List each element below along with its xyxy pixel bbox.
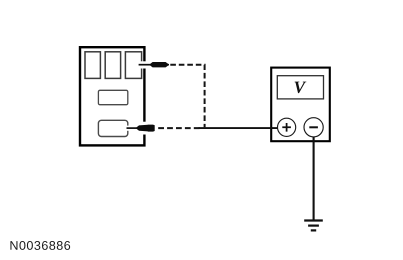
voltmeter body: [271, 68, 330, 142]
dashed jumper: bottom run to probe: [156, 127, 200, 129]
wire: - terminal to ground: [313, 137, 315, 220]
probe arrow bottom (into bottom cavity): [126, 122, 156, 135]
connector cavity middle: [98, 90, 127, 104]
connector cavity pin 1: [85, 52, 100, 79]
wire: junction to voltmeter + terminal: [199, 127, 278, 129]
voltmeter display window: [277, 76, 323, 99]
ground symbol: [304, 221, 323, 231]
connector cavity pin 3: [125, 52, 141, 79]
figure label N0036886: [10, 241, 70, 250]
connector cavity pin 2: [105, 52, 120, 79]
voltmeter - terminal: [304, 118, 323, 137]
dashed jumper: top run and vertical drop: [170, 65, 204, 128]
voltmeter + terminal: [278, 118, 296, 136]
voltmeter V label: [295, 82, 307, 94]
probe arrow top (into pin 3): [137, 61, 169, 68]
connector cavity bottom: [98, 120, 127, 136]
connector shell: [80, 47, 144, 145]
